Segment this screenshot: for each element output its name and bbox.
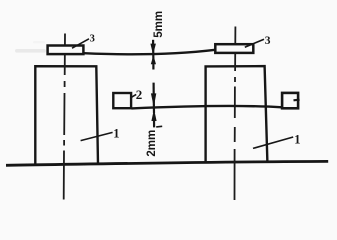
leader for label 2 (132, 94, 137, 97)
5mm lower arrow (points up to gap) (151, 55, 156, 64)
top gap line (84, 50, 215, 54)
left pier centerline (64, 34, 65, 200)
ground line (6, 161, 328, 165)
scan smudge left of strip (15, 49, 46, 53)
leader for right label 3 (245, 39, 264, 47)
leader for left label 1 (81, 132, 113, 140)
2mm upper arrow (points down to lower gap) (153, 83, 155, 95)
leader for left label 3 (72, 39, 89, 48)
5mm dimension line crossing gap (152, 49, 154, 61)
right block tick (294, 99, 300, 102)
svg-text:3: 3 (265, 35, 271, 47)
svg-text:5mm: 5mm (153, 11, 165, 38)
svg-text:1: 1 (294, 133, 300, 147)
right block (282, 93, 298, 108)
left block 2 (113, 93, 131, 108)
svg-text:1: 1 (113, 127, 119, 141)
small tick right of 2mm arrow stem (156, 125, 162, 128)
svg-text:3: 3 (90, 34, 95, 45)
right strip 3 (215, 44, 253, 53)
lower gap line (131, 106, 282, 108)
left pier 1 outline (35, 66, 98, 165)
right pier 1 outline (206, 66, 268, 163)
left strip 3 (48, 46, 84, 55)
2mm dimension line crossing lower gap (153, 101, 155, 113)
5mm upper arrow (points down to gap) (152, 40, 154, 46)
right pier centerline (234, 27, 237, 201)
2mm lower arrow (points up to lower gap) (151, 109, 156, 121)
svg-text:2: 2 (136, 87, 143, 102)
svg-text:2mm: 2mm (146, 130, 158, 157)
leader for right label 1 (253, 137, 293, 148)
